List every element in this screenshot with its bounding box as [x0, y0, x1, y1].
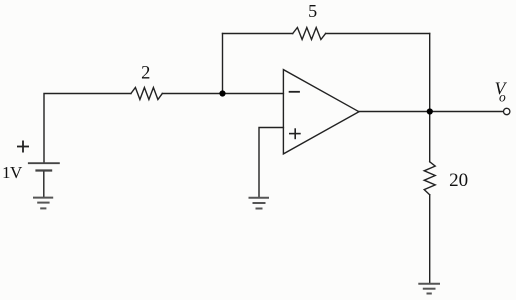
svg-text:2: 2: [141, 64, 150, 84]
svg-text:1V: 1V: [2, 163, 23, 182]
svg-text:o: o: [499, 90, 506, 105]
svg-text:5: 5: [308, 1, 317, 21]
svg-text:20: 20: [449, 170, 468, 191]
